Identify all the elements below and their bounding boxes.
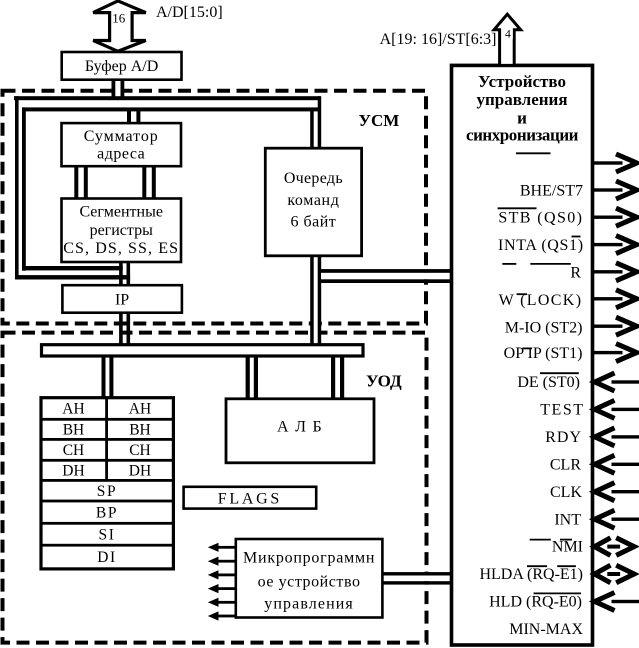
svg-text:ВН: ВН [129, 421, 151, 438]
svg-text:А Л Б: А Л Б [277, 419, 323, 436]
svg-text:Буфер A/D: Буфер A/D [85, 58, 158, 75]
svg-text:Сегментные: Сегментные [79, 203, 163, 220]
svg-text:A/D[15:0]: A/D[15:0] [156, 4, 223, 21]
svg-text:HLDA (RQ-E1): HLDA (RQ-E1) [479, 566, 583, 583]
svg-text:TEST: TEST [540, 402, 584, 419]
svg-text:RDY: RDY [545, 429, 582, 446]
svg-text:Микропрограммн: Микропрограммн [243, 550, 375, 567]
svg-text:DE (ST0): DE (ST0) [517, 374, 580, 391]
svg-text:DI: DI [97, 549, 117, 566]
svg-text:M-IO (ST2): M-IO (ST2) [505, 319, 583, 336]
svg-text:MIN-MAX: MIN-MAX [509, 621, 583, 638]
svg-text:CLR: CLR [550, 457, 581, 474]
svg-text:команд: команд [287, 192, 339, 209]
svg-text:синхронизации: синхронизации [466, 126, 579, 145]
svg-text:DH: DH [62, 462, 84, 479]
svg-text:BHE/ST7: BHE/ST7 [520, 182, 583, 199]
svg-text:INT: INT [554, 511, 581, 528]
svg-text:АН: АН [129, 401, 151, 418]
svg-text:управления: управления [264, 596, 354, 613]
svg-text:IP: IP [115, 291, 129, 308]
svg-text:DH: DH [129, 462, 151, 479]
svg-text:регистры: регистры [90, 222, 154, 239]
svg-text:OP IP (ST1): OP IP (ST1) [504, 345, 583, 362]
svg-text:АН: АН [62, 401, 84, 418]
svg-text:INTA (QS1): INTA (QS1) [498, 237, 584, 254]
svg-text:BP: BP [96, 504, 118, 521]
svg-text:Очередь: Очередь [284, 170, 343, 187]
svg-text:R: R [570, 265, 581, 282]
svg-text:СН: СН [63, 442, 85, 459]
svg-text:A[19: 16]/ST[6:3]: A[19: 16]/ST[6:3] [380, 31, 497, 48]
svg-text:4: 4 [505, 29, 511, 41]
svg-text:STB (QS0): STB (QS0) [498, 210, 583, 227]
svg-text:CS, DS, SS, ES: CS, DS, SS, ES [63, 240, 179, 257]
svg-text:SI: SI [99, 526, 116, 543]
svg-text:Устройство: Устройство [478, 72, 566, 91]
svg-text:УСМ: УСМ [359, 111, 400, 130]
svg-text:ВН: ВН [63, 421, 85, 438]
svg-text:NMI: NMI [552, 539, 583, 556]
svg-text:Сумматор: Сумматор [84, 128, 159, 145]
svg-text:ое устройство: ое устройство [258, 574, 361, 591]
svg-text:УОД: УОД [366, 372, 402, 391]
svg-text:SP: SP [97, 483, 117, 500]
svg-text:адреса: адреса [97, 146, 145, 163]
svg-text:HLD (RQ-E0): HLD (RQ-E0) [489, 594, 582, 611]
svg-text:FLAGS: FLAGS [218, 490, 282, 507]
svg-text:управления: управления [476, 90, 567, 109]
svg-text:6 байт: 6 байт [291, 214, 337, 231]
svg-text:СН: СН [129, 442, 151, 459]
svg-text:и: и [517, 108, 527, 127]
svg-text:W (LOCK): W (LOCK) [499, 292, 583, 309]
svg-text:CLK: CLK [550, 484, 582, 501]
svg-text:16: 16 [112, 10, 126, 25]
